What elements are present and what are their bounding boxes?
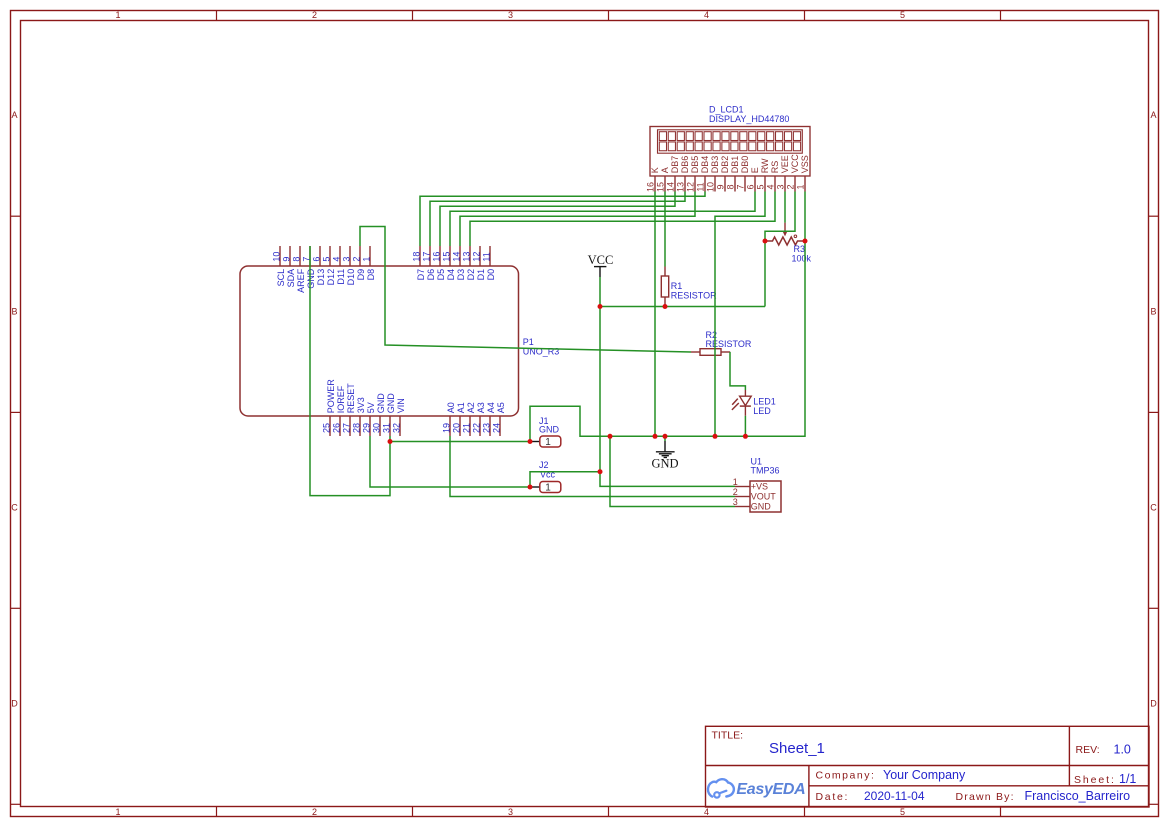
svg-text:4: 4 (704, 807, 709, 817)
svg-text:D5: D5 (436, 269, 446, 281)
svg-text:POWER: POWER (326, 379, 336, 414)
svg-text:DB0: DB0 (740, 156, 750, 174)
wire UNO D9 to R2 (360, 227, 691, 353)
wire J2 to VCC net (530, 472, 600, 487)
svg-text:Drawn By:: Drawn By: (956, 791, 1015, 803)
wire LCD DB6 to UNO D6 (430, 192, 685, 247)
svg-text:29: 29 (362, 423, 372, 433)
svg-text:Sheet_1: Sheet_1 (769, 740, 825, 757)
svg-text:16: 16 (646, 182, 656, 192)
svg-text:A3: A3 (476, 402, 486, 413)
svg-text:GND: GND (386, 393, 396, 414)
svg-text:1.0: 1.0 (1114, 742, 1131, 756)
svg-text:GND: GND (751, 502, 772, 512)
junction UNO GND pin31 / J1 wire (388, 439, 393, 444)
svg-text:SCL: SCL (276, 269, 286, 287)
svg-text:RESET: RESET (346, 383, 356, 414)
svg-text:D4: D4 (446, 269, 456, 281)
sensor U1 TMP36 body (750, 481, 781, 512)
junction R3 pin2 / VSS (803, 239, 808, 244)
svg-text:3: 3 (342, 257, 352, 262)
svg-text:VCC: VCC (790, 154, 800, 174)
LCD1 character cells (659, 132, 800, 151)
svg-text:RESISTOR: RESISTOR (706, 339, 752, 349)
svg-text:DB4: DB4 (700, 156, 710, 174)
LED1 emission arrows (732, 399, 738, 405)
svg-text:AREF: AREF (296, 268, 306, 293)
svg-text:13: 13 (676, 182, 686, 192)
svg-text:VOUT: VOUT (751, 492, 777, 502)
svg-text:31: 31 (382, 423, 392, 433)
wire VCC rail horizontal (600, 306, 765, 308)
svg-text:GND: GND (376, 393, 386, 414)
connector J1 (GND) (532, 441, 540, 443)
svg-text:1: 1 (545, 482, 551, 493)
svg-text:Sheet:: Sheet: (1074, 774, 1116, 786)
svg-text:24: 24 (492, 423, 502, 433)
svg-text:3: 3 (733, 497, 738, 507)
svg-text:VIN: VIN (396, 398, 406, 413)
svg-text:2: 2 (733, 487, 738, 497)
wire LCD RS to UNO D2 (470, 192, 775, 247)
wire VCC flag to TMP36 +VS (600, 277, 735, 486)
wire UNO GND pin7 loop to pin31 (310, 246, 390, 496)
svg-text:17: 17 (422, 252, 432, 262)
title block (706, 726, 1150, 807)
junction J2 / VCC net (598, 469, 603, 474)
svg-text:LED: LED (753, 406, 771, 416)
svg-text:RW: RW (760, 158, 770, 173)
potentiometer R3 (765, 237, 805, 245)
svg-text:DB3: DB3 (710, 156, 720, 174)
svg-text:1: 1 (362, 257, 372, 262)
svg-text:3: 3 (776, 184, 786, 189)
svg-text:14: 14 (452, 252, 462, 262)
svg-text:2: 2 (312, 10, 317, 20)
wire R2 to LED1 anode (730, 352, 745, 390)
svg-text:B: B (11, 306, 17, 316)
junction GND symbol / GND rail (663, 434, 668, 439)
svg-text:7: 7 (736, 184, 746, 189)
svg-text:DISPLAY_HD44780: DISPLAY_HD44780 (709, 114, 789, 124)
svg-text:B: B (1150, 306, 1156, 316)
svg-text:1/1: 1/1 (1119, 772, 1136, 786)
svg-text:D2: D2 (466, 269, 476, 281)
wire LCD RW to GND rail (715, 192, 765, 437)
svg-text:+VS: +VS (751, 482, 768, 492)
svg-text:1: 1 (796, 184, 806, 189)
junction J1 pin (528, 439, 533, 444)
svg-text:3: 3 (508, 10, 513, 20)
svg-text:D6: D6 (426, 269, 436, 281)
svg-text:A: A (660, 167, 670, 173)
svg-text:DB7: DB7 (670, 156, 680, 174)
svg-text:32: 32 (392, 423, 402, 433)
svg-text:A1: A1 (456, 402, 466, 413)
svg-text:Date:: Date: (816, 791, 850, 803)
svg-text:VCC: VCC (588, 253, 614, 267)
svg-text:C: C (1150, 502, 1157, 512)
svg-text:D10: D10 (346, 269, 356, 286)
svg-text:4: 4 (332, 257, 342, 262)
svg-text:DB6: DB6 (680, 156, 690, 174)
svg-text:27: 27 (342, 423, 352, 433)
svg-text:Francisco_Barreiro: Francisco_Barreiro (1025, 789, 1131, 803)
svg-text:A4: A4 (486, 402, 496, 413)
svg-text:D12: D12 (326, 269, 336, 286)
R3 pin1 marker dot (794, 235, 797, 238)
svg-text:D9: D9 (356, 269, 366, 281)
wire LCD VSS to R3 pin2 (804, 192, 806, 242)
svg-text:Vcc: Vcc (540, 469, 556, 479)
wire LCD E to UNO D4 (450, 192, 755, 247)
svg-text:10: 10 (272, 252, 282, 262)
svg-text:6: 6 (746, 184, 756, 189)
svg-text:D7: D7 (416, 269, 426, 281)
svg-text:1: 1 (115, 807, 120, 817)
svg-text:1: 1 (115, 10, 120, 20)
svg-text:1: 1 (733, 477, 738, 487)
svg-text:TMP36: TMP36 (751, 466, 780, 476)
R3 wiper arrow (784, 223, 786, 232)
resistor R1 (664, 267, 666, 277)
wire GND rail to TMP36 GND (610, 436, 735, 506)
svg-text:5: 5 (900, 10, 905, 20)
svg-text:2: 2 (786, 184, 796, 189)
wire VCC rail to R3 pin1 (764, 241, 766, 307)
svg-text:11: 11 (482, 252, 492, 261)
wire LCD A to R1 (664, 192, 666, 267)
svg-text:C: C (11, 502, 18, 512)
svg-text:25: 25 (322, 423, 332, 433)
svg-text:GND: GND (306, 268, 316, 289)
svg-text:10: 10 (706, 182, 716, 192)
junction LED1 / GND rail (743, 434, 748, 439)
svg-text:D: D (1150, 698, 1157, 708)
svg-text:16: 16 (432, 252, 442, 262)
svg-text:EasyEDA: EasyEDA (736, 781, 805, 798)
LED LED1 (744, 390, 746, 396)
svg-text:D3: D3 (456, 269, 466, 281)
svg-text:D1: D1 (476, 269, 486, 281)
wire LCD DB7 to UNO D5 (440, 192, 675, 247)
svg-text:23: 23 (482, 423, 492, 433)
svg-text:19: 19 (442, 423, 452, 433)
wire LCD DB4 to UNO D7 (420, 192, 705, 247)
svg-text:TITLE:: TITLE: (712, 730, 744, 742)
svg-text:D: D (11, 698, 18, 708)
junction GND rail / TMP36 GND (608, 434, 613, 439)
svg-text:15: 15 (656, 182, 666, 192)
U1 pins 1..3 (735, 486, 750, 488)
wire LCD DB5 to UNO D3 (460, 192, 695, 247)
svg-text:RESISTOR: RESISTOR (671, 291, 717, 301)
junction VCC flag / rail (598, 304, 603, 309)
svg-text:A0: A0 (446, 402, 456, 413)
svg-text:2: 2 (352, 257, 362, 262)
svg-text:D11: D11 (336, 269, 346, 285)
svg-text:22: 22 (472, 423, 482, 433)
svg-text:SDA: SDA (286, 269, 296, 288)
svg-text:26: 26 (332, 423, 342, 433)
svg-text:14: 14 (666, 182, 676, 192)
svg-text:6: 6 (312, 257, 322, 262)
svg-text:D8: D8 (366, 269, 376, 281)
svg-text:REV:: REV: (1076, 744, 1100, 756)
svg-text:28: 28 (352, 423, 362, 433)
svg-text:A: A (1150, 110, 1156, 120)
LED1 cathode bar (740, 405, 751, 407)
UNO_R3 bottom pins POWER..VIN and A0..A5 (330, 416, 500, 436)
svg-text:Company:: Company: (816, 770, 876, 782)
svg-text:A5: A5 (496, 402, 506, 413)
svg-text:30: 30 (372, 423, 382, 433)
svg-text:20: 20 (452, 423, 462, 433)
svg-text:5: 5 (322, 257, 332, 262)
svg-text:9: 9 (282, 257, 292, 262)
ground symbol GND (664, 436, 666, 441)
display LCD1 (DISPLAY_HD44780) (650, 127, 810, 177)
wire GND rail to J1 (530, 241, 805, 442)
svg-text:A: A (11, 110, 17, 120)
UNO_R3 top pins SCL..D8 and D7..D0 (280, 246, 490, 266)
svg-text:VSS: VSS (800, 155, 810, 173)
svg-text:2020-11-04: 2020-11-04 (864, 789, 925, 803)
junction R3 pin1 / VCC (763, 239, 768, 244)
connector J2 (Vcc) (532, 486, 540, 488)
wire J1 to UNO GND pin31 (390, 441, 530, 443)
svg-text:4: 4 (766, 184, 776, 189)
svg-text:3: 3 (508, 807, 513, 817)
svg-text:3V3: 3V3 (356, 397, 366, 413)
svg-text:1: 1 (545, 437, 551, 448)
junction R1 / VCC rail (663, 304, 668, 309)
svg-text:11: 11 (696, 182, 706, 191)
svg-text:15: 15 (442, 252, 452, 262)
svg-text:8: 8 (726, 184, 736, 189)
resistor R2 (691, 351, 700, 353)
wire LCD VEE to R3 wiper (784, 192, 786, 223)
wire LCD K to GND rail (654, 192, 656, 437)
svg-text:12: 12 (472, 252, 482, 262)
svg-text:5: 5 (756, 184, 766, 189)
svg-text:D13: D13 (316, 269, 326, 286)
wire LED1 cathode to GND rail (744, 416, 746, 437)
svg-text:IOREF: IOREF (336, 385, 346, 413)
junction J2 pin (528, 485, 533, 490)
svg-text:21: 21 (462, 423, 472, 433)
wire J2 to UNO 5V (370, 436, 530, 487)
svg-text:A2: A2 (466, 402, 476, 413)
svg-text:100k: 100k (792, 253, 812, 263)
svg-text:VEE: VEE (780, 155, 790, 173)
svg-text:8: 8 (292, 257, 302, 262)
svg-text:E: E (750, 167, 760, 173)
svg-text:13: 13 (462, 252, 472, 262)
wire LCD VCC to R3 pin1 (765, 192, 795, 242)
svg-text:DB5: DB5 (690, 156, 700, 174)
svg-text:K: K (650, 167, 660, 173)
svg-text:2: 2 (312, 807, 317, 817)
svg-text:D0: D0 (486, 269, 496, 281)
junction LCD K / GND rail (653, 434, 658, 439)
svg-text:Your Company: Your Company (883, 768, 966, 782)
svg-text:4: 4 (704, 10, 709, 20)
svg-text:GND: GND (651, 457, 678, 471)
wire UNO A0 to TMP36 VOUT (450, 436, 735, 497)
LCD1 pins 16..1 (655, 176, 805, 192)
svg-text:P1: P1 (523, 337, 534, 347)
svg-text:RS: RS (770, 161, 780, 174)
svg-text:9: 9 (716, 184, 726, 189)
svg-text:5V: 5V (366, 402, 376, 413)
EasyEDA logo cloud (708, 779, 734, 797)
svg-text:5: 5 (900, 807, 905, 817)
svg-text:DB1: DB1 (730, 156, 740, 174)
MCU module P1 UNO_R3 body (240, 266, 519, 416)
svg-text:12: 12 (686, 182, 696, 192)
svg-text:18: 18 (412, 252, 422, 262)
junction RW / GND rail (713, 434, 718, 439)
svg-text:GND: GND (539, 424, 560, 434)
svg-text:DB2: DB2 (720, 156, 730, 174)
